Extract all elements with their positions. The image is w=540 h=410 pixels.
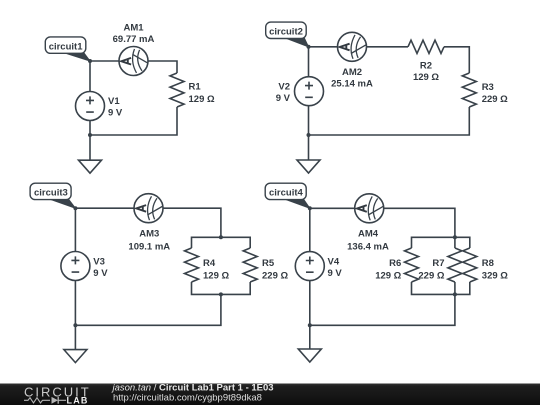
resistor R6 (405, 248, 419, 282)
wire ammeter to R2 (367, 46, 409, 48)
svg-text:136.4 mA: 136.4 mA (347, 242, 389, 253)
top rail circuit3 (192, 237, 251, 248)
resistor R3 (462, 73, 476, 107)
R7 top stub (454, 237, 456, 248)
svg-text:R1: R1 (189, 82, 202, 93)
wire ammeter to parallel top (163, 208, 221, 237)
svg-text:129 Ω: 129 Ω (413, 72, 439, 83)
label AM4 value (347, 228, 389, 252)
svg-text:9 V: 9 V (93, 268, 108, 279)
junction dot parallel top circuit3 (219, 235, 223, 239)
label V3 value (93, 256, 108, 279)
resistor R7 (448, 248, 462, 282)
wire ammeter to parallel top (384, 208, 455, 237)
ground circuit1 (79, 160, 102, 173)
label R2 value (413, 61, 439, 84)
junction dot circuit4 bottom (308, 323, 312, 327)
ammeter AM4 (355, 194, 384, 223)
svg-text:V1: V1 (108, 96, 120, 107)
svg-text:329 Ω: 329 Ω (482, 270, 508, 281)
node junction dot circuit4 top (308, 206, 312, 210)
wire V3 to bottom rail (74, 281, 76, 326)
svg-text:V2: V2 (278, 81, 290, 92)
ground circuit4 (298, 349, 321, 362)
svg-text:9 V: 9 V (276, 93, 291, 104)
ground circuit3 (64, 350, 87, 363)
svg-text:229 Ω: 229 Ω (262, 270, 288, 281)
resistor R8 (463, 248, 477, 282)
svg-text:R4: R4 (203, 258, 216, 269)
wire node to ammeter (75, 207, 134, 209)
junction dot parallel bottom circuit4 (453, 292, 457, 296)
CircuitLab logo LAB (67, 395, 89, 405)
wire node to ammeter (310, 207, 355, 209)
node junction dot circuit3 top (73, 206, 77, 210)
label V2 value (276, 81, 291, 103)
svg-text:circuit1: circuit1 (49, 41, 84, 52)
wire parallel bottom to bottom rail (75, 294, 221, 325)
wire R2 to R3 top corner (444, 47, 469, 73)
wire V4 to bottom rail (309, 281, 311, 326)
svg-text:R6: R6 (389, 258, 401, 269)
label V1 value (108, 96, 123, 118)
net label circuit2 (266, 22, 309, 47)
ground circuit2 (297, 160, 320, 173)
svg-text:229 Ω: 229 Ω (418, 270, 444, 281)
svg-text:9 V: 9 V (328, 268, 343, 279)
label R7 value (418, 258, 444, 281)
resistor R1 (170, 73, 184, 107)
wire node down to V2 (308, 47, 310, 77)
top rail circuit4 (412, 237, 470, 248)
net label circuit1 (45, 37, 90, 61)
wire V1 to bottom rail (89, 121, 91, 136)
label V4 value (328, 256, 343, 279)
voltage source V2 (295, 77, 324, 106)
svg-text:129 Ω: 129 Ω (375, 270, 401, 281)
svg-text:AM4: AM4 (358, 228, 379, 239)
voltage source V3 (61, 252, 90, 281)
voltage source V1 (76, 92, 105, 121)
label R6 value (375, 258, 401, 281)
wire node to ammeter (90, 60, 119, 62)
label AM1 value (113, 23, 155, 45)
wire node down to V3 (74, 208, 76, 251)
voltage source V4 (295, 252, 324, 281)
junction dot parallel top circuit4 (453, 235, 457, 239)
ground wire circuit1 (89, 135, 91, 160)
svg-text:109.1 mA: 109.1 mA (128, 242, 170, 253)
node junction dot circuit2 top (307, 45, 311, 49)
svg-text:V3: V3 (93, 256, 105, 267)
wire node to ammeter (309, 46, 338, 48)
svg-text:25.14 mA: 25.14 mA (331, 78, 373, 89)
svg-text:9 V: 9 V (108, 108, 123, 119)
CircuitLab logo text (24, 385, 91, 400)
net label circuit3 (30, 183, 75, 208)
svg-text:V4: V4 (328, 256, 340, 267)
svg-text:AM1: AM1 (123, 23, 144, 34)
wire R1 bottom to bottom rail (90, 107, 177, 135)
wire ammeter to R1 top corner (148, 61, 177, 73)
label R8 value (482, 258, 508, 281)
footer url line (113, 393, 262, 404)
label R4 value (203, 258, 229, 281)
svg-text:circuit3: circuit3 (34, 188, 68, 199)
wire node down to V4 (309, 208, 311, 251)
wire node down to V1 (89, 61, 91, 92)
resistor R5 (243, 248, 257, 282)
R7 bottom stub (454, 282, 456, 294)
svg-text:129 Ω: 129 Ω (203, 270, 229, 281)
svg-text:circuit2: circuit2 (269, 27, 303, 38)
ground wire circuit4 (309, 325, 311, 349)
svg-text:http://circuitlab.com/cygbp9t8: http://circuitlab.com/cygbp9t89dka8 (113, 393, 262, 404)
resistor R2 (408, 40, 444, 53)
bottom rail circuit4 (412, 282, 470, 294)
svg-text:229 Ω: 229 Ω (482, 94, 508, 105)
svg-text:R2: R2 (420, 61, 432, 72)
wire R3 bottom to bottom rail (309, 107, 470, 135)
ammeter AM2 (338, 32, 367, 61)
ammeter AM3 (134, 194, 163, 223)
wire V2 to bottom rail (308, 106, 310, 135)
resistor R4 (185, 248, 199, 282)
junction dot parallel bottom circuit3 (219, 292, 223, 296)
junction dot circuit2 bottom (307, 133, 311, 137)
junction dot circuit1 bottom (88, 133, 92, 137)
svg-text:R3: R3 (482, 82, 494, 93)
svg-text:129 Ω: 129 Ω (189, 94, 215, 105)
label AM2 value (331, 67, 373, 90)
svg-text:AM2: AM2 (342, 67, 362, 78)
label R3 value (482, 82, 508, 105)
ground wire circuit3 (74, 325, 76, 349)
node junction dot circuit1 top (88, 59, 92, 63)
junction dot circuit3 bottom (73, 323, 77, 327)
label R5 value (262, 258, 288, 281)
svg-text:LAB: LAB (67, 395, 89, 405)
label AM3 value (128, 228, 170, 252)
svg-text:AM3: AM3 (139, 228, 159, 239)
wire parallel bottom to bottom rail (310, 294, 455, 325)
svg-text:69.77 mA: 69.77 mA (113, 34, 155, 45)
bottom rail circuit3 (192, 282, 251, 294)
footer title line (111, 382, 274, 393)
svg-text:R5: R5 (262, 258, 275, 269)
svg-text:circuit4: circuit4 (269, 188, 304, 199)
svg-text:R8: R8 (482, 258, 494, 269)
svg-text:R7: R7 (432, 258, 444, 269)
net label circuit4 (265, 183, 310, 208)
ground wire circuit2 (308, 135, 310, 160)
CircuitLab logo symbol (resistor + diode) (24, 397, 66, 404)
label R1 value (189, 82, 215, 105)
ammeter AM1 (119, 47, 148, 76)
